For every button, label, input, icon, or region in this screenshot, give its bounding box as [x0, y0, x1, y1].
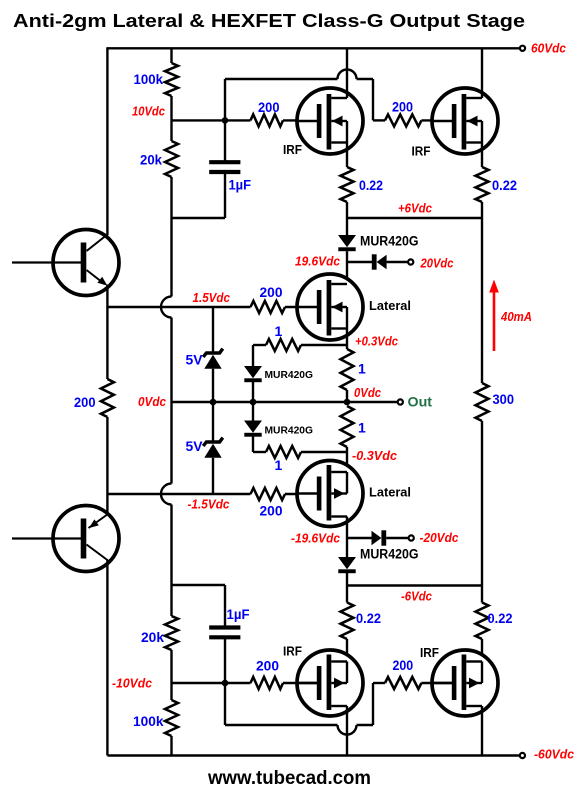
diode D2 20V feed [347, 261, 372, 263]
svg-text:200: 200 [392, 99, 413, 115]
svg-text:-60Vdc: -60Vdc [534, 747, 575, 762]
wire M5 drain to bottom rail [346, 706, 348, 756]
terminal -20Vdc [409, 535, 414, 540]
wire +6Vdc rail [347, 217, 482, 219]
svg-text:1.5Vdc: 1.5Vdc [193, 290, 231, 305]
terminal Out [398, 399, 403, 404]
wire C2 bottom to -10V node [224, 637, 226, 683]
svg-text:200: 200 [74, 394, 96, 410]
svg-text:1: 1 [358, 420, 366, 436]
svg-text:0.22: 0.22 [488, 610, 513, 626]
mosfet M2 IRF [432, 88, 498, 154]
zener Z2 5V [203, 438, 223, 446]
wire -1.5Vdc line [107, 493, 250, 495]
svg-text:0Vdc: 0Vdc [138, 394, 167, 409]
wire C2 top return [172, 584, 226, 586]
svg-text:60Vdc: 60Vdc [531, 41, 567, 56]
svg-text:1: 1 [358, 361, 366, 377]
svg-text:0.22: 0.22 [356, 610, 381, 626]
svg-text:-20Vdc: -20Vdc [420, 530, 460, 545]
svg-text:1: 1 [275, 323, 283, 339]
svg-text:-0.3Vdc: -0.3Vdc [352, 448, 398, 463]
svg-text:-10Vdc: -10Vdc [112, 676, 153, 691]
wire Q2 collector to bottom rail [106, 560, 108, 756]
wire divider low with hop over -1.5Vdc line [170, 402, 172, 484]
zener Z1 5V [203, 349, 223, 357]
wire bottom crossover with hop [224, 683, 226, 725]
svg-text:Anti-2gm Lateral & HEXFET Clas: Anti-2gm Lateral & HEXFET Class-G Output… [13, 10, 525, 31]
svg-text:IRF: IRF [420, 646, 439, 660]
svg-text:MUR420G: MUR420G [265, 425, 314, 437]
wire 1.5Vdc line [107, 306, 250, 308]
wire 10Vdc line [172, 119, 251, 121]
svg-text:19.6Vdc: 19.6Vdc [295, 254, 341, 269]
wire Q2 emitter to -1.5Vdc node [106, 494, 108, 515]
wire M2 drain to top rail [481, 48, 483, 98]
svg-text:MUR420G: MUR420G [360, 547, 419, 562]
node zener 0V junction [210, 399, 217, 406]
svg-text:IRF: IRF [412, 145, 431, 159]
wire M1 drain to top rail [346, 48, 348, 98]
diode D4 MUR420G [252, 402, 254, 421]
svg-text:200: 200 [258, 99, 280, 115]
svg-text:+6Vdc: +6Vdc [398, 201, 433, 216]
resistor 1 M3 source [341, 349, 354, 390]
terminal 20Vdc [408, 259, 413, 264]
mosfet M3 Lateral [297, 274, 363, 340]
svg-text:-19.6Vdc: -19.6Vdc [291, 531, 341, 546]
mosfet M5 IRF [297, 650, 363, 716]
wire Q1 emitter to 1.5Vdc node [106, 285, 108, 308]
svg-text:10Vdc: 10Vdc [132, 104, 166, 119]
resistor 200 M6 gate [385, 677, 421, 689]
capacitor C2 1uF [209, 625, 240, 629]
mosfet M6 IRF [432, 650, 498, 716]
svg-text:200: 200 [260, 284, 283, 300]
svg-text:5V: 5V [186, 352, 204, 368]
wire left frame collector Q1 [106, 47, 108, 235]
resistor 200 M2 gate [385, 114, 421, 126]
svg-text:1µF: 1µF [227, 606, 250, 622]
wire top crossover with hop [225, 78, 338, 80]
svg-text:100k: 100k [133, 713, 164, 729]
resistor 100k bottom [170, 683, 172, 700]
svg-text:200: 200 [256, 658, 279, 674]
wire Z1 to 0V line [212, 369, 214, 402]
svg-text:-6Vdc: -6Vdc [401, 589, 433, 604]
resistor 0.22 M2 source [481, 143, 483, 168]
svg-text:-1.5Vdc: -1.5Vdc [188, 497, 231, 512]
svg-text:300: 300 [493, 391, 515, 407]
svg-text:IRF: IRF [283, 143, 302, 157]
svg-text:+0.3Vdc: +0.3Vdc [355, 334, 399, 349]
node output junction [344, 399, 351, 406]
terminal -60Vdc [520, 753, 525, 758]
wire 0V output line [172, 401, 398, 403]
resistor 0.22 M5 source [346, 586, 348, 603]
wire C1 bottom return [224, 172, 226, 218]
svg-text:Lateral: Lateral [369, 486, 411, 500]
diode D3 MUR420G [244, 366, 262, 378]
wire 200 to M2 gate [421, 119, 451, 121]
resistor 1 M4 source [341, 406, 354, 447]
node -10Vdc junction [222, 680, 229, 687]
wire 200 to M4 gate [285, 493, 317, 495]
resistor 300 [481, 218, 483, 383]
terminal +60Vdc [520, 46, 525, 51]
svg-text:www.tubecad.com: www.tubecad.com [207, 767, 371, 789]
wire Z2 to -1.5V line [212, 458, 214, 494]
wire 200 to M1 gate [283, 119, 317, 121]
wire -60Vdc bottom rail [107, 754, 519, 756]
wire +60Vdc top rail [107, 47, 519, 49]
svg-text:0.22: 0.22 [359, 177, 383, 193]
svg-text:200: 200 [260, 503, 283, 519]
svg-text:1: 1 [275, 457, 283, 473]
resistor 0.22 M6 source [481, 586, 483, 603]
svg-text:0.22: 0.22 [492, 177, 517, 193]
wire -10Vdc line [172, 682, 251, 684]
transistor Q1 NPN [53, 230, 119, 296]
svg-text:MUR420G: MUR420G [265, 369, 314, 381]
resistor 1 lower clamp [253, 451, 266, 453]
transistor Q2 PNP [53, 506, 119, 572]
svg-text:MUR420G: MUR420G [360, 234, 419, 249]
resistor 200 M5 gate [251, 677, 284, 689]
wire 0V to zener Z2 [212, 402, 214, 441]
wire -6Vdc rail [347, 584, 482, 586]
svg-text:20k: 20k [141, 629, 164, 645]
wire 200 to M5 gate [283, 682, 317, 684]
resistor 1 upper clamp [252, 345, 254, 366]
wire top rail to R 100k [170, 48, 172, 63]
resistor 200 bottom lateral gate [251, 488, 286, 500]
svg-text:IRF: IRF [283, 645, 302, 659]
wire 10Vdc node up [224, 79, 226, 161]
resistor 200 top lateral gate [251, 301, 286, 313]
resistor 20k bottom [170, 585, 172, 616]
svg-text:200: 200 [393, 657, 414, 673]
resistor 200 emitters [106, 307, 108, 379]
node clamp 0V junction [250, 399, 257, 406]
mosfet M1 IRF [297, 88, 363, 154]
resistor 100k top [165, 63, 178, 96]
svg-text:0Vdc: 0Vdc [354, 385, 382, 400]
diode D6 MUR420G [338, 557, 356, 569]
svg-text:5V: 5V [186, 438, 204, 454]
svg-text:Out: Out [408, 394, 433, 410]
svg-text:100k: 100k [134, 71, 164, 87]
current arrow 40mA [493, 289, 496, 351]
wire 200 to M6 gate [421, 682, 451, 684]
node 10Vdc junction [222, 117, 229, 124]
wire divider mid with hop over 1.5Vdc line [170, 218, 172, 297]
svg-text:40mA: 40mA [500, 309, 532, 324]
diode D1 MUR420G [346, 218, 348, 235]
svg-text:Lateral: Lateral [369, 299, 411, 313]
svg-text:20k: 20k [140, 152, 162, 168]
wire 200 to M3 gate [285, 306, 317, 308]
resistor 200 M1 gate [251, 114, 284, 126]
resistor 0.22 M1 source [346, 143, 348, 168]
capacitor C1 1uF [209, 160, 240, 164]
svg-text:20Vdc: 20Vdc [420, 256, 455, 271]
diode D5 -20V feed [347, 537, 372, 539]
mosfet M4 Lateral [297, 461, 363, 527]
wire 1.5V to zener Z1 [212, 307, 214, 352]
resistor 20k top [170, 120, 172, 141]
wire M6 drain to bottom rail [481, 706, 483, 756]
wire M3 source to +0.3 node [346, 329, 348, 350]
svg-text:1µF: 1µF [229, 177, 252, 193]
wire M4 drain to -19.6 node [346, 517, 348, 560]
